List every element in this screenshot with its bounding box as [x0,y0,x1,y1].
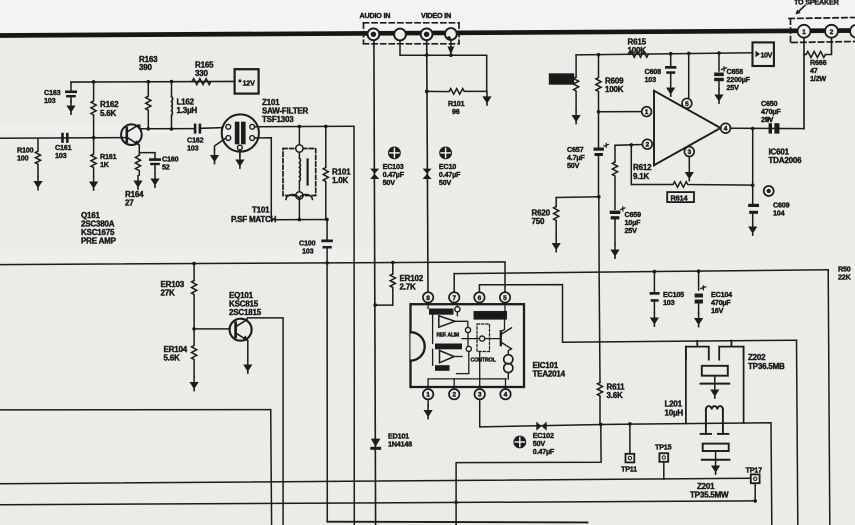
node EC104 [697,269,701,273]
svg-text:103: 103 [645,75,657,84]
wire: EQ101 collector to right-side drop [247,318,283,525]
wire: EQ101 base [194,328,230,330]
inductor L162 [170,80,198,131]
ground under C608 [666,83,675,97]
node ER102 top [391,261,395,265]
svg-text:2SC1815: 2SC1815 [229,308,262,317]
ground under R620 [552,238,561,252]
resistor R666 [804,52,832,58]
svg-text:TEA2014: TEA2014 [476,313,501,320]
wire: Z101 bottom stub [239,150,241,156]
resonator Z201 [690,444,729,500]
resistor ER103 [161,264,197,329]
svg-text:TSF1303: TSF1303 [262,115,294,124]
node EC105 [653,270,657,274]
svg-text:50V: 50V [567,161,580,170]
svg-text:REF. ALIM: REF. ALIM [437,333,459,339]
svg-text:1: 1 [426,392,430,399]
wire: output to speaker line [731,127,805,129]
pin 5 [682,98,692,108]
svg-text:1: 1 [802,29,806,36]
jack J3 video in [421,28,433,40]
test point TP15 [655,443,672,480]
svg-text:8: 8 [426,295,430,302]
inductor L201 [665,400,729,434]
svg-text:R616: R616 [552,77,568,84]
wire: J4 drop with arrow [450,40,452,55]
ground under Z201 [711,461,720,475]
svg-text:1.3µH: 1.3µH [177,106,198,115]
svg-text:TP17: TP17 [746,466,763,475]
capacitor EC105 [650,272,685,313]
node ER103 top [192,262,196,266]
capacitor EC103 (bowtie) [370,147,405,188]
capacitor C163 [44,82,77,105]
svg-text:R614: R614 [671,193,689,202]
wire: video line (J3 down to pin 8) [427,40,428,292]
svg-text:4: 4 [504,392,508,399]
svg-text:Z202: Z202 [748,353,766,362]
ground under Z202 [710,385,719,399]
svg-text:52: 52 [162,163,170,172]
svg-text:TP11: TP11 [621,465,637,474]
capacitor EC102 (series bowtie) [513,422,555,456]
svg-text:100K: 100K [628,46,647,55]
resistor R616 (boxed) [549,55,579,111]
node C657/R620 junction [597,195,601,199]
svg-text:50V: 50V [439,178,452,187]
jack J2 [394,29,406,41]
transformer T101 [231,125,316,224]
pin 4 [721,123,731,133]
svg-text:1N4148: 1N4148 [388,440,412,449]
resistor R620 [532,198,559,239]
IC internals: transistor [501,328,512,349]
svg-text:104: 104 [773,209,785,218]
wire: EQ101 emitter [247,341,249,360]
wire: band B y504 [0,501,755,505]
svg-text:10µH: 10µH [665,409,684,418]
wire: bias rail from left edge to TEA pin 5 [0,262,505,292]
svg-text:9.1K: 9.1K [633,172,650,181]
capacitor EC10 (bowtie) [423,147,461,188]
capacitor C657 [567,112,608,197]
IC internals: dashed box [477,324,490,352]
wire: speaker feed down right side [803,55,805,129]
node J4/J2 wire [449,53,453,57]
svg-text:TDA2006: TDA2006 [769,156,803,165]
capacitor C659 [610,207,641,245]
ground under EQ101 emitter [243,360,252,374]
svg-text:2: 2 [452,392,456,399]
dashed outline AV jack block [364,23,460,44]
pin 5 [500,292,510,302]
resistor R161 [91,138,117,177]
wire: J2 to ground loop [400,40,487,91]
svg-text:0.47µF: 0.47µF [533,447,555,456]
ground under ER104 [190,377,199,391]
svg-text:TP36.5MB: TP36.5MB [748,362,785,371]
svg-text:750: 750 [532,217,545,226]
wire: feedback riser [630,145,632,185]
svg-text:TEA2014: TEA2014 [533,370,566,379]
ground under C163 [66,101,75,115]
IC EIC101 outer box [411,304,525,387]
wire: input line from left edge [0,137,121,140]
resistor ER102 [373,263,423,307]
resistor R164 [125,155,144,208]
svg-text:AUDIO IN: AUDIO IN [360,11,391,20]
svg-text:3: 3 [687,149,691,156]
+12V supply box [235,69,259,93]
resistor R615 (series) [628,38,649,58]
pin 6 [474,292,484,302]
resistor ER104 [164,329,197,377]
svg-text:103: 103 [187,144,199,153]
pin 8 [423,292,433,302]
wire: pin 7 loop to right [453,274,455,293]
svg-text:3.6K: 3.6K [607,391,624,400]
wire: Q161 collector to node [138,125,140,129]
node R162/R161 base junction [92,136,96,140]
svg-text:5.6K: 5.6K [100,109,117,118]
ground under C659 [610,245,619,259]
svg-text:22K: 22K [838,273,852,282]
svg-text:16V: 16V [711,306,724,315]
svg-text:CONTROL: CONTROL [471,358,497,364]
resistor R101 (96) termination [425,89,487,116]
connector pin 2 [825,25,838,38]
resistor R611 [597,283,625,424]
resonator Z202 element [702,366,728,376]
svg-text:TP35.5MW: TP35.5MW [690,491,729,500]
svg-text:103: 103 [55,151,67,160]
svg-text:27: 27 [125,199,134,208]
resistor R165 (series on rail) [192,61,214,85]
ground under C609 [748,222,757,236]
ground under EC105 [650,313,659,327]
svg-text:12V: 12V [243,79,256,88]
svg-text:2: 2 [830,29,834,36]
resistor R612 [612,145,652,209]
wire: collector node line [140,128,194,130]
svg-text:103: 103 [44,96,56,105]
resistor R162 [91,80,119,137]
svg-text:5: 5 [503,295,507,302]
wire: Z101 left ground stub [215,138,226,150]
svg-text:96: 96 [452,107,460,116]
connector pin 3 (cut at edge) [850,25,855,38]
capacitor C161 (series) [55,133,72,160]
svg-text:VIDEO IN: VIDEO IN [421,11,451,20]
svg-text:103: 103 [302,247,314,256]
IC internals: TEA2014 tag [474,311,508,320]
svg-text:10V: 10V [761,53,773,60]
capacitor C160 [139,153,178,174]
wire: connector 2 drop [831,38,833,54]
pin 3 [475,389,485,399]
IC internals: op-amp 2 [440,351,455,363]
wire: T101 bottom link [271,219,327,221]
svg-text:2.7K: 2.7K [400,283,417,292]
svg-text:1: 1 [645,109,649,116]
ground under R101 [482,91,491,105]
diode ED101 [370,432,412,450]
svg-text:103: 103 [663,298,675,307]
svg-text:PRE AMP: PRE AMP [81,237,117,246]
svg-text:T101: T101 [252,206,270,215]
svg-text:L201: L201 [665,400,683,409]
wire: pin1 input [599,111,642,113]
ground under R616 [572,110,581,124]
wire: band E bottom [327,521,587,524]
wire: audio line (J1 down to bottom) [374,40,376,525]
resonator Z202 brackets [686,341,744,360]
svg-text:390: 390 [139,63,152,72]
wire: +12V rail [71,80,235,83]
ground under EC104 [694,313,703,327]
pin 2 [449,389,459,399]
dashed outline speaker connector [789,18,855,43]
wire: right-edge drop [828,270,830,525]
capacitor C609 [748,201,789,222]
wire: pin2 input [615,144,642,147]
capacitor EC104 [695,271,733,315]
svg-text:2: 2 [645,142,649,149]
ground under R161 [89,177,98,191]
test point TP17 [746,466,763,501]
ground under pin 3 [688,157,690,168]
svg-text:5.6K: 5.6K [164,354,181,363]
pin 1 [642,107,652,117]
+10V supply box [753,42,774,66]
IC internals: small node circles [455,307,460,312]
wire: C100 column continues down [326,263,328,522]
capacitor C650 (series output) [761,99,781,134]
wire: Z101 output to right [255,125,353,128]
wire: down from R611 node to corner [456,425,601,525]
svg-text:TP15: TP15 [655,443,672,452]
wire: thick top bus [0,31,855,36]
svg-text:25V: 25V [625,226,638,235]
wire: bias line down to R611 [598,197,600,283]
ground Z101 left [210,150,219,164]
svg-text:50V: 50V [383,178,396,187]
pin 1 [423,389,433,399]
resistor R100 [17,138,41,176]
resistor R609 [596,53,624,111]
node C100 bottom [325,261,329,265]
test point TP11 [621,422,637,473]
IC internals: input block (dark) [429,309,454,315]
wire: band A y482 [0,478,751,484]
svg-text:4: 4 [724,126,728,133]
lighter strip above top bus [0,0,855,36]
IC internals: block 2 (dark) [435,344,462,350]
svg-text:27K: 27K [161,289,175,298]
op-amp IC601 triangle [654,91,721,166]
wire: Z202 outer legs to main run [685,347,687,424]
svg-text:5: 5 [685,101,689,108]
svg-text:7: 7 [452,295,456,302]
svg-text:330: 330 [195,69,208,78]
wire: Z202 right drop [797,340,798,525]
svg-text:1.0K: 1.0K [332,176,349,185]
svg-text:25V: 25V [761,115,774,124]
pin 3 [684,147,694,157]
wire: pin 3 drop and EC102 run [480,399,601,427]
svg-text:1/2W: 1/2W [810,74,826,83]
wire: supply branch y54 [576,53,752,55]
transistor EQ101 [229,291,262,341]
SAW filter Z101 [222,98,309,152]
wire: band y409 [0,410,272,525]
IC internals: op-amp 1 [439,316,455,327]
svg-text:100: 100 [17,154,29,163]
jack J1 audio in [368,28,380,40]
ground Z101 bottom [235,155,244,169]
pin 2 [642,139,652,149]
connector pin 1 [798,25,811,38]
pin 7 [449,292,459,302]
svg-text:R612: R612 [633,163,652,172]
resistor R614 (series feedback) [631,182,752,203]
wire: Z101 lower output to T101 leg [255,138,272,220]
capacitor C658 [714,51,750,92]
wire: pin5 supply stub [688,53,690,98]
svg-text:1K: 1K [100,160,110,169]
svg-text:R162: R162 [100,100,119,109]
wire: pin 6 loop to Z202 [479,285,796,343]
ground under R100 [33,176,42,190]
svg-text:3: 3 [478,392,482,399]
test point P mark [764,186,774,196]
IC internals: wiring [428,304,506,387]
capacitor C100 [299,220,333,264]
svg-text:P.SF MATCH: P.SF MATCH [231,215,277,224]
wire: main run y423 to right corner [601,423,772,525]
IC internals: current source circles [504,349,513,387]
wire: output node drop to C609 [752,129,754,204]
svg-text:6: 6 [478,295,482,302]
ground under C160 [150,174,159,188]
capacitor C608 [645,52,677,84]
svg-text:25V: 25V [727,83,740,92]
wire: C657 to R620 [556,196,599,199]
transistor Q161 [81,124,142,245]
svg-text:TO SPEAKER: TO SPEAKER [794,0,840,7]
ground under pin 1 [427,399,429,406]
IC internals: block 3 (dark) [435,365,450,371]
node video line crossing [425,53,429,57]
resistor R101 1.0K [323,125,351,222]
jack J4 [445,28,457,40]
ground under C658 [714,90,723,104]
wire: connector 1 drop [803,37,805,55]
ground under R164 [133,176,142,190]
resistor R163 [139,55,158,131]
wire: IF line corner down [353,126,355,525]
speaker callout arrow [797,6,805,14]
wire: Q161 emitter [138,145,140,155]
svg-text:100K: 100K [605,85,624,94]
capacitor C162 (series) [187,124,222,153]
pin 4 [500,389,510,399]
